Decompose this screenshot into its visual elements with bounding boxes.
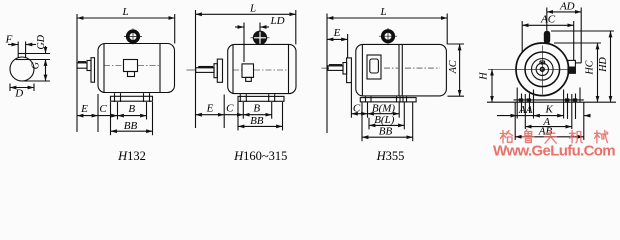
svg-text:H132: H132 (117, 149, 146, 163)
svg-text:B: B (128, 103, 135, 115)
svg-text:B: B (253, 103, 260, 115)
svg-text:C: C (226, 103, 234, 115)
svg-text:L: L (121, 6, 128, 18)
svg-text:GD: GD (36, 34, 47, 49)
svg-text:BB: BB (379, 126, 393, 138)
svg-text:LD: LD (269, 15, 284, 27)
svg-text:E: E (333, 27, 341, 39)
svg-text:B(L): B(L) (374, 114, 395, 126)
svg-text:C: C (99, 103, 107, 115)
svg-text:K: K (545, 104, 554, 116)
svg-text:AA: AA (518, 104, 533, 116)
svg-text:F: F (5, 34, 13, 46)
svg-text:Www.GeLufu.Com: Www.GeLufu.Com (493, 143, 615, 160)
svg-text:E: E (80, 103, 88, 115)
svg-text:H160~315: H160~315 (233, 149, 287, 163)
svg-text:AD: AD (559, 1, 575, 13)
svg-text:H: H (479, 72, 490, 81)
svg-text:AC: AC (540, 14, 556, 26)
svg-text:BB: BB (124, 120, 138, 132)
svg-text:G: G (30, 62, 41, 69)
svg-text:AC: AC (448, 60, 459, 74)
svg-text:B(M): B(M) (372, 102, 396, 114)
svg-text:HD: HD (598, 57, 609, 73)
svg-text:BB: BB (250, 115, 264, 127)
svg-text:HC: HC (585, 60, 596, 75)
svg-text:H355: H355 (376, 149, 405, 163)
svg-text:L: L (379, 6, 386, 18)
svg-text:L: L (249, 3, 256, 15)
svg-text:D: D (14, 88, 23, 100)
svg-text:C: C (353, 102, 361, 114)
svg-text:E: E (206, 103, 214, 115)
